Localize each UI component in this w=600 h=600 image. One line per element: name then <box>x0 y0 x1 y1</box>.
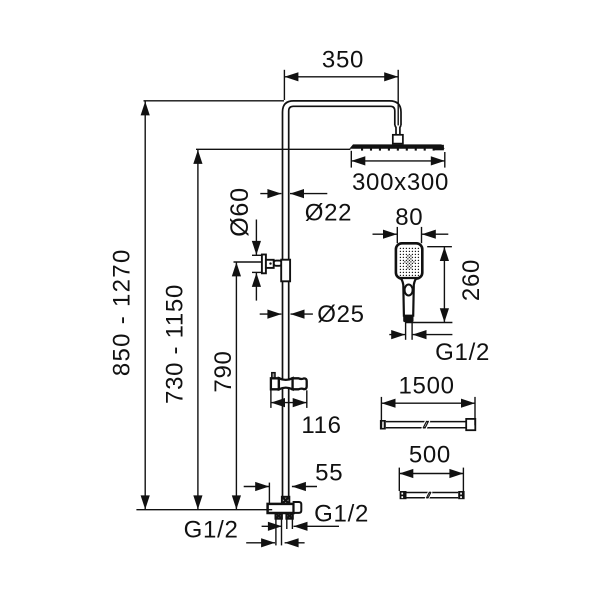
label diameter 60 (rotated) <box>226 187 254 237</box>
label diameter 22 <box>305 200 352 227</box>
dimension 80 extension lines <box>397 227 421 243</box>
wall bracket arm <box>266 260 282 268</box>
connection hose 500 right fitting <box>458 491 464 499</box>
dimension 350 arrow <box>284 72 398 81</box>
dimension 500 arrow <box>399 469 463 478</box>
hand shower connector nut <box>403 316 413 322</box>
svg-text:G1/2: G1/2 <box>435 339 490 366</box>
label 1500 <box>398 373 454 400</box>
mixer right water inlet (hatched) <box>286 513 292 519</box>
shower column riser and overhead arm pipe <box>283 101 402 497</box>
label 80 <box>395 204 423 231</box>
mixer side knob G1/2 outlet <box>294 502 302 513</box>
mixer left water inlet (hatched) <box>276 513 282 519</box>
dimension diameter 22 arrows <box>260 189 327 198</box>
dimension 1500 arrow <box>382 399 476 408</box>
mixer inlet connector (hatched) <box>282 497 289 504</box>
baseline reference line <box>136 509 272 511</box>
svg-text:G1/2: G1/2 <box>184 516 239 543</box>
svg-text:Ø25: Ø25 <box>317 301 364 328</box>
shower hose 1500 body <box>386 421 466 429</box>
mixer valve body <box>268 504 294 513</box>
dimension 350 extension lines <box>284 70 398 126</box>
dimension diameter 60 arrows <box>252 220 261 301</box>
svg-text:80: 80 <box>395 204 423 231</box>
dimension 55 extension line <box>268 483 270 504</box>
label G1/2 inlet <box>184 516 239 543</box>
label 850-1270 (rotated) <box>108 248 135 376</box>
dimension 730-1150 extension line <box>196 148 350 150</box>
svg-text:1500: 1500 <box>398 373 454 400</box>
svg-text:500: 500 <box>409 442 451 469</box>
dimension 500 extension lines <box>399 468 463 491</box>
label 500 <box>409 442 451 469</box>
connection hose 500 left fitting <box>400 491 407 499</box>
overhead shower head 300x300 (side view) <box>350 145 444 151</box>
dimension 730-1150 arrow <box>193 150 202 510</box>
label 116 <box>301 412 341 439</box>
dimension 790 arrow <box>232 262 241 509</box>
label 55 <box>315 459 343 486</box>
dimension 260 extension lines <box>405 247 452 323</box>
svg-text:260: 260 <box>458 259 485 301</box>
dimension 300x300 extension lines <box>351 151 445 168</box>
dimension 1500 extension lines <box>381 397 475 425</box>
left inlet tube lines <box>276 519 282 546</box>
right inlet tube lines <box>287 519 293 529</box>
dimension 80 arrows <box>373 230 449 239</box>
shower hose 1500 right fitting <box>466 419 475 430</box>
hand shower head <box>396 243 422 278</box>
dimension G1/2 inlet arrows <box>246 538 304 547</box>
svg-text:300x300: 300x300 <box>352 169 449 196</box>
hand shower thread G1/2 <box>406 322 413 340</box>
label 260 (rotated) <box>458 259 485 301</box>
wall bracket plate <box>262 255 266 274</box>
label G1/2 hand shower <box>435 339 490 366</box>
svg-text:G1/2: G1/2 <box>314 500 369 527</box>
label G1/2 mixer outlet <box>314 500 369 527</box>
shower head connector flange <box>393 135 403 144</box>
dimension 116 arrow <box>271 398 307 407</box>
hand shower slider holder knob <box>272 373 275 379</box>
svg-text:790: 790 <box>210 350 237 392</box>
shower hose 1500 left fitting <box>380 420 386 430</box>
svg-text:Ø22: Ø22 <box>305 200 352 227</box>
dimension G1/2 mixer outlet arrows <box>262 522 339 531</box>
svg-text:116: 116 <box>301 412 341 439</box>
dimension diameter 60 extension lines <box>252 255 262 272</box>
svg-text:Ø60: Ø60 <box>226 187 254 237</box>
dimension 850-1270 arrow <box>141 101 150 509</box>
rail sleeve at bracket <box>281 260 290 282</box>
label diameter 25 <box>317 301 364 328</box>
label 790 (rotated) <box>210 350 237 392</box>
dimension 55 arrows <box>244 482 317 491</box>
label 300x300 <box>352 169 449 196</box>
dimension diameter 25 arrows <box>260 310 313 319</box>
svg-text:55: 55 <box>315 459 343 486</box>
label 730-1150 (rotated) <box>162 284 189 404</box>
hand shower button <box>405 285 413 296</box>
shower arm taper section <box>395 125 401 135</box>
dimension G1/2 hand shower arrows <box>389 330 452 339</box>
dimension 116 extension lines <box>271 390 307 408</box>
label 350 <box>322 46 364 73</box>
dimension 850-1270 extension line <box>144 100 285 102</box>
dimension 300x300 arrow <box>351 156 445 165</box>
svg-text:730 - 1150: 730 - 1150 <box>162 284 189 404</box>
svg-text:350: 350 <box>322 46 364 73</box>
hand shower slider holder <box>271 378 307 389</box>
dimension 260 arrow <box>440 247 449 322</box>
hand shower handle <box>401 278 416 316</box>
dimension 790 extension line <box>234 261 262 263</box>
svg-text:850 - 1270: 850 - 1270 <box>108 248 135 376</box>
connection hose 500 body <box>407 492 459 499</box>
